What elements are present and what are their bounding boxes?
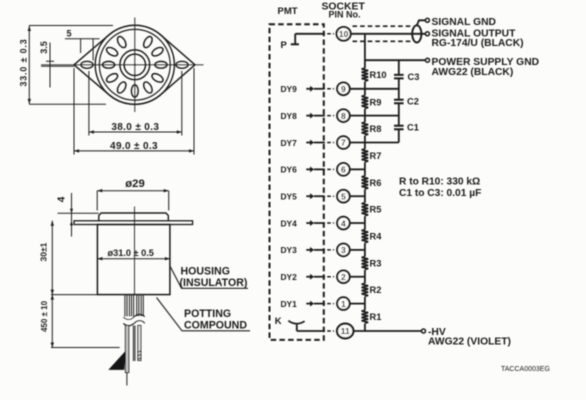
wire pin6 — [350, 168, 365, 170]
cathode K symbol — [288, 321, 324, 331]
svg-text:PIN No.: PIN No. — [329, 10, 361, 20]
capacitor chain vertical wire — [398, 60, 400, 142]
svg-text:COMPOUND: COMPOUND — [184, 320, 247, 332]
terminal power supply gnd — [426, 58, 430, 62]
terminal signal output — [425, 32, 429, 36]
dynode DY1 arrow — [306, 301, 324, 307]
socket pin 7 — [337, 136, 350, 149]
left mounting slot — [81, 61, 93, 68]
svg-text:1: 1 — [341, 299, 346, 309]
svg-text:9: 9 — [341, 84, 346, 94]
wire pin4 — [350, 222, 365, 224]
terminal -HV — [422, 329, 426, 333]
svg-text:R5: R5 — [370, 205, 382, 215]
socket pin 3 — [337, 244, 350, 257]
dash-dot lead pin11 — [324, 330, 336, 332]
svg-text:PMT: PMT — [278, 6, 298, 17]
svg-text:ø31.0 ± 0.5: ø31.0 ± 0.5 — [108, 248, 154, 258]
center key circle outer — [120, 50, 150, 80]
svg-text:30±1: 30±1 — [39, 242, 49, 261]
svg-text:SIGNAL GND: SIGNAL GND — [432, 17, 496, 28]
center dot — [134, 64, 136, 66]
dash-dot lead pin8 — [324, 115, 336, 117]
svg-text:R3: R3 — [370, 258, 382, 268]
svg-text:5: 5 — [341, 191, 346, 201]
svg-text:2: 2 — [341, 272, 346, 282]
wire pin5 — [350, 195, 365, 197]
svg-text:450 ± 10: 450 ± 10 — [40, 300, 49, 332]
-HV wire — [354, 330, 422, 332]
dynode DY2 arrow — [306, 274, 324, 280]
anode P symbol — [291, 34, 324, 45]
dynode DY7 arrow — [306, 140, 324, 146]
side view housing body — [97, 225, 169, 295]
wire pin1 — [350, 303, 365, 305]
resistor R7 — [362, 149, 369, 162]
capacitor C1 — [394, 126, 404, 130]
dash-dot lead pin3 — [324, 249, 336, 251]
svg-text:AWG22 (VIOLET): AWG22 (VIOLET) — [428, 337, 511, 348]
svg-text:R to R10: 330 kΩ: R to R10: 330 kΩ — [399, 177, 480, 188]
dynode DY9 arrow — [306, 86, 324, 92]
svg-text:DY4: DY4 — [281, 218, 298, 228]
svg-text:DY6: DY6 — [281, 165, 298, 175]
socket pin 8 — [337, 109, 350, 122]
resistor R9 — [362, 96, 369, 109]
dim 450+-10 — [51, 295, 120, 348]
svg-text:C1 to C3: 0.01 µF: C1 to C3: 0.01 µF — [399, 188, 481, 199]
svg-text:3: 3 — [341, 245, 346, 255]
resistor R2 — [362, 283, 369, 296]
socket outer circle — [95, 25, 174, 104]
svg-text:8: 8 — [341, 111, 346, 121]
svg-text:11: 11 — [341, 326, 350, 336]
socket pin 11 — [337, 324, 353, 339]
svg-text:4: 4 — [341, 218, 346, 228]
side view flange plate — [74, 221, 193, 225]
svg-text:R2: R2 — [370, 285, 382, 295]
svg-text:DY5: DY5 — [281, 192, 298, 202]
center key circle inner — [124, 54, 145, 75]
svg-text:(INSULATOR): (INSULATOR) — [180, 277, 248, 289]
wire pin2 — [350, 276, 365, 278]
svg-text:C1: C1 — [407, 123, 419, 133]
svg-text:ø29: ø29 — [125, 178, 144, 190]
svg-text:P: P — [281, 40, 288, 51]
svg-text:POTTING: POTTING — [184, 308, 231, 320]
socket pin 9 — [337, 83, 350, 96]
terminal signal gnd — [425, 18, 429, 22]
dim o31.0 — [97, 257, 169, 260]
wire pin8 to caps — [350, 115, 399, 117]
dim 30+-1 — [51, 221, 54, 295]
svg-text:DY3: DY3 — [281, 245, 298, 255]
svg-text:DY8: DY8 — [281, 111, 298, 121]
svg-text:38.0 ± 0.3: 38.0 ± 0.3 — [111, 122, 159, 133]
svg-text:10: 10 — [339, 29, 349, 39]
horizontal centerline — [41, 64, 204, 66]
svg-text:7: 7 — [341, 138, 346, 148]
dash-dot lead pin1 — [324, 303, 336, 305]
side view top disc — [99, 213, 169, 221]
leader potting — [157, 298, 251, 331]
dash-dot lead pin2 — [324, 276, 336, 278]
svg-text:DY2: DY2 — [281, 272, 298, 282]
svg-text:6: 6 — [341, 165, 346, 175]
dash-dot lead pin9 — [324, 88, 336, 90]
svg-text:5: 5 — [67, 29, 72, 39]
dash-dot lead pin5 — [324, 195, 336, 197]
resistor R1 — [362, 310, 369, 323]
svg-text:HOUSING: HOUSING — [181, 265, 230, 277]
wire pin7 to caps — [350, 142, 399, 144]
dim 5 line — [65, 39, 100, 61]
svg-text:R7: R7 — [370, 151, 382, 161]
coax shield dashes — [353, 25, 412, 27]
dim 38.0 line — [89, 71, 182, 136]
resistor R3 — [362, 257, 369, 270]
jumper to signal gnd — [417, 20, 426, 25]
svg-text:R8: R8 — [370, 124, 382, 134]
dynode DY4 arrow — [306, 220, 324, 226]
svg-text:R10: R10 — [370, 70, 387, 80]
dim 4 — [58, 193, 99, 237]
dynode DY3 arrow — [306, 247, 324, 253]
wire pin3 — [350, 249, 365, 251]
PMT dashed box — [270, 24, 324, 340]
stripped wire arrow (black wedge) — [108, 351, 126, 370]
svg-text:DY7: DY7 — [281, 138, 298, 148]
dim 33.0 line — [28, 26, 113, 105]
svg-text:RG-174/U (BLACK): RG-174/U (BLACK) — [432, 38, 524, 49]
svg-text:R4: R4 — [370, 232, 383, 242]
svg-text:AWG22 (BLACK): AWG22 (BLACK) — [432, 67, 514, 78]
socket pin 1 — [337, 297, 350, 310]
dim 3.5 line — [41, 43, 74, 88]
socket pin 2 — [337, 270, 350, 283]
dash-dot lead pin7 — [324, 142, 336, 144]
leader housing — [170, 267, 248, 289]
resistor R6 — [362, 176, 369, 189]
resistor R4 — [362, 230, 369, 243]
dynode DY5 arrow — [306, 193, 324, 199]
socket pin 6 — [337, 163, 350, 176]
resistor R10 — [362, 68, 369, 81]
vertical centerline — [134, 18, 136, 113]
coax center conductor wire — [352, 33, 426, 35]
svg-text:C3: C3 — [408, 72, 420, 82]
resistor chain vertical wire — [364, 34, 366, 331]
dash-dot lead pin6 — [324, 168, 336, 170]
svg-text:TACCA0003EG: TACCA0003EG — [501, 366, 550, 373]
socket pin 4 — [337, 217, 350, 230]
svg-text:33.0 ± 0.3: 33.0 ± 0.3 — [19, 38, 29, 86]
dash-dot lead pin4 — [324, 222, 336, 224]
dynode DY8 arrow — [306, 113, 324, 119]
svg-text:C2: C2 — [407, 97, 419, 107]
side view centerline — [134, 207, 136, 295]
svg-text:R1: R1 — [370, 312, 382, 322]
dash-dot lead pin10 — [324, 33, 336, 35]
svg-text:49.0 ± 0.3: 49.0 ± 0.3 — [110, 141, 158, 152]
power supply gnd wire — [365, 59, 426, 61]
svg-text:K: K — [275, 316, 282, 327]
svg-text:DY1: DY1 — [281, 299, 298, 309]
socket pin 10 — [337, 27, 351, 41]
capacitor C2 — [394, 100, 404, 104]
svg-text:3.5: 3.5 — [39, 41, 49, 54]
coax cable ellipse — [412, 25, 421, 42]
svg-text:DY9: DY9 — [281, 84, 298, 94]
right mounting slot — [176, 61, 188, 68]
svg-text:R6: R6 — [370, 178, 382, 188]
svg-text:R9: R9 — [370, 97, 382, 107]
cable bundle upper — [125, 295, 143, 317]
svg-text:4: 4 — [57, 196, 68, 202]
capacitor C3 — [394, 75, 404, 79]
socket body circle — [99, 29, 170, 100]
dim 49.0 line — [74, 68, 194, 155]
resistor R5 — [362, 203, 369, 216]
socket pin 5 — [337, 190, 350, 203]
resistor R8 — [362, 122, 369, 135]
socket top view outline (marquise flange) — [74, 25, 195, 104]
dim o29 — [97, 189, 169, 211]
cable break symbol — [123, 317, 147, 322]
pin holes ring (11 ovals) — [103, 35, 168, 97]
cable wires lower — [125, 326, 140, 386]
wire pin9 to caps — [350, 88, 399, 90]
dynode DY6 arrow — [306, 166, 324, 172]
